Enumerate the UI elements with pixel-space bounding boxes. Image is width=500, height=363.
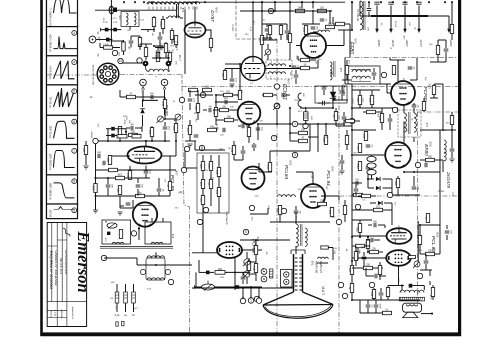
tube PCL84 triode: [242, 167, 265, 190]
capacitor: [151, 95, 153, 100]
wire: [371, 90, 373, 95]
svg-text:33K: 33K: [210, 127, 215, 129]
resistor: [370, 250, 379, 253]
junction: [404, 1, 406, 3]
wire: [154, 45, 166, 47]
wire: [261, 57, 263, 64]
wire: [351, 200, 353, 300]
yoke plug circles: [140, 79, 147, 86]
tuner vertical wire: [110, 0, 112, 47]
wire: [360, 312, 390, 314]
wire: [389, 122, 391, 130]
coil: [330, 62, 332, 74]
junction: [367, 251, 369, 253]
junction: [351, 129, 353, 131]
junction: [155, 264, 157, 266]
svg-text:M.A.T.: M.A.T.: [321, 286, 325, 295]
node: [381, 72, 386, 77]
wire: [192, 287, 294, 289]
junction: [153, 45, 155, 47]
resistor: [321, 246, 329, 249]
junction: [289, 1, 291, 3]
capacitor: [374, 2, 379, 4]
resistor: [254, 264, 257, 273]
svg-text:5K6: 5K6: [215, 190, 217, 195]
wire: [438, 39, 446, 41]
resistor: [426, 214, 429, 223]
resistor rail: [350, 266, 353, 275]
wire: [145, 174, 147, 178]
wire: [363, 111, 366, 113]
wire: [125, 303, 127, 312]
wire: [432, 285, 434, 288]
wire: [352, 182, 362, 184]
junction: [204, 1, 206, 3]
wire: [383, 178, 393, 180]
wire: [310, 67, 318, 69]
wire: [289, 2, 291, 8]
wire: [159, 32, 161, 36]
resistor: [163, 100, 166, 109]
wire: [162, 29, 164, 35]
wire: [318, 102, 322, 104]
CRT neck: [294, 254, 303, 292]
capacitor: [156, 51, 161, 53]
oscillogram box 3: [47, 56, 78, 85]
section divider dashed power boundary: [345, 57, 458, 59]
junction: [143, 1, 145, 3]
junction: [289, 65, 291, 67]
wire: [451, 34, 453, 41]
wire: [261, 45, 263, 57]
potentiometer vert hold: [157, 116, 164, 123]
wire: [367, 300, 369, 304]
wire: [242, 272, 244, 276]
wire: [95, 196, 97, 210]
coil: [318, 30, 329, 32]
junction: [94, 177, 96, 179]
wire: [141, 29, 155, 31]
wire: [153, 27, 155, 33]
resistor: [209, 39, 212, 48]
svg-text:8: 8: [201, 146, 203, 150]
IF transformer T100 box: [121, 12, 139, 27]
svg-text:12V 50: 12V 50: [49, 210, 52, 218]
resistor: [174, 124, 177, 133]
wire: [392, 194, 420, 196]
capacitor: [129, 41, 134, 43]
wire: [295, 78, 297, 84]
oscillogram 6 waveform trace: [54, 151, 75, 168]
svg-text:7: 7: [273, 136, 275, 140]
svg-text:4K7: 4K7: [328, 210, 330, 215]
coil: [168, 16, 180, 18]
wire: [242, 280, 244, 284]
resistor: [296, 9, 305, 12]
wire: [269, 151, 271, 162]
junction: [215, 94, 217, 96]
wire: [238, 125, 241, 127]
wire: [367, 308, 369, 313]
svg-text:1M: 1M: [265, 252, 267, 255]
wire: [419, 245, 421, 249]
revision tick marks: [116, 322, 118, 326]
wire: [234, 159, 243, 161]
wire: [371, 105, 373, 108]
potentiometer focus: [243, 259, 250, 266]
wire: [439, 225, 441, 254]
resistor: [254, 246, 257, 255]
wire: [262, 39, 277, 41]
capacitor: [366, 145, 371, 147]
wire: [286, 24, 288, 30]
wire: [248, 137, 250, 144]
resistor: [201, 196, 204, 205]
wire: [352, 129, 376, 131]
node: [336, 219, 341, 224]
wire: [195, 286, 202, 288]
wire: [373, 267, 383, 269]
wire: [296, 67, 300, 69]
wire: [381, 123, 383, 131]
wire: [242, 154, 244, 160]
wire: [403, 105, 405, 113]
node: [184, 146, 189, 151]
svg-text:1M: 1M: [130, 124, 133, 126]
wire: [423, 111, 425, 113]
wire: [151, 137, 153, 141]
resistor: [432, 86, 435, 95]
wire: [363, 252, 365, 256]
capacitor: [450, 149, 455, 151]
wire: [351, 108, 353, 200]
wire: [355, 261, 357, 267]
wire: [370, 202, 376, 204]
resistor: [422, 102, 425, 111]
capacitor: [356, 181, 358, 186]
tube PCL85 triode: [128, 147, 162, 164]
resistor: [174, 36, 177, 45]
svg-text:FECHA: FECHA: [50, 310, 53, 318]
wire: [129, 166, 131, 171]
svg-text:8T1: 8T1: [181, 8, 185, 13]
wire: [276, 110, 278, 124]
coil T4 primary: [404, 113, 406, 132]
svg-text:8K2: 8K2: [370, 292, 372, 297]
wire: [184, 10, 186, 75]
resistor: [372, 290, 375, 299]
junction: [403, 171, 405, 173]
wire: [418, 6, 420, 17]
resistor: [144, 48, 147, 57]
wire: [274, 9, 276, 12]
capacitor: [136, 185, 141, 187]
yoke plug black b: [166, 61, 172, 67]
wire: [224, 69, 226, 72]
wire: [332, 86, 334, 92]
resistor: [209, 180, 212, 189]
wire: [421, 313, 432, 315]
node 31: [268, 8, 273, 13]
svg-text:10K: 10K: [417, 186, 419, 190]
capacitor: [412, 105, 417, 107]
resistor: [217, 168, 220, 177]
resistor: [128, 171, 131, 180]
junction: [138, 228, 140, 230]
coil yoke b: [147, 278, 165, 280]
node: [274, 84, 279, 89]
wire: [329, 11, 331, 24]
capacitor: [322, 87, 327, 89]
top B+ bus wire: [183, 1, 345, 3]
yoke wire a: [143, 90, 158, 101]
junction: [107, 140, 109, 142]
svg-text:68K: 68K: [194, 106, 196, 111]
wire: [130, 44, 132, 48]
capacitor: [379, 293, 384, 295]
capacitor: [311, 27, 316, 29]
oscillogram 7 index circle: [72, 179, 77, 184]
resistor: [362, 194, 371, 197]
wire: [137, 189, 139, 196]
resistor: [232, 146, 235, 155]
wire: [197, 113, 199, 121]
svg-text:130V 50 c/s: 130V 50 c/s: [49, 126, 52, 139]
wire: [428, 15, 449, 17]
junction: [413, 171, 415, 173]
node: [249, 205, 254, 210]
resistor: [343, 206, 346, 215]
wire: [352, 209, 373, 211]
wire: [380, 288, 382, 292]
wire: [215, 95, 217, 125]
wire: [164, 97, 166, 100]
wire: [373, 68, 375, 72]
junction: [351, 1, 353, 3]
wire: [302, 23, 320, 25]
oscillogram 6 index circle: [72, 148, 77, 153]
svg-text:6V7: 6V7: [287, 79, 291, 85]
junction: [312, 1, 314, 3]
wire: [376, 111, 382, 113]
svg-text:1M: 1M: [110, 298, 113, 300]
fusible resistor: [132, 292, 136, 303]
capacitor: [131, 126, 133, 131]
wire: [246, 125, 250, 127]
svg-text:+125V: +125V: [449, 39, 452, 47]
CRT funnel bell: [263, 292, 333, 305]
wire: [242, 146, 244, 150]
wire: [104, 257, 137, 259]
wire: [388, 285, 404, 287]
wire: [381, 108, 383, 114]
svg-text:ESQUEMA Nº 01020002: ESQUEMA Nº 01020002: [49, 251, 53, 290]
IF transformer T2 dashed box: [266, 60, 292, 79]
capacitor: [194, 135, 199, 137]
junction: [274, 10, 276, 12]
wire: [341, 155, 343, 160]
wire: [96, 177, 151, 179]
wire: [85, 155, 87, 166]
junction: [351, 260, 353, 262]
capacitor: [106, 185, 111, 187]
junction: [261, 1, 263, 3]
junction: [252, 10, 254, 12]
diode sound det: [378, 201, 382, 205]
svg-text:3V2: 3V2: [429, 141, 433, 147]
junction: [125, 131, 127, 133]
wire: [130, 36, 132, 40]
wire: [210, 155, 212, 162]
wire: [111, 40, 123, 42]
wire: [248, 124, 250, 128]
wire: [216, 101, 238, 103]
svg-text:39K: 39K: [241, 122, 245, 124]
wire: [162, 218, 164, 222]
wire: [413, 176, 415, 186]
resistor: [358, 224, 361, 233]
wire: [387, 297, 389, 301]
junction: [289, 107, 291, 109]
potentiometer G2: [243, 271, 250, 278]
resistor: [279, 26, 282, 35]
junction: [119, 140, 121, 142]
wire: [433, 95, 435, 99]
wire: [120, 62, 143, 64]
wire: [355, 192, 357, 196]
yoke wire b: [164, 90, 166, 116]
svg-text:DY87: DY87: [210, 10, 215, 22]
wire: [261, 9, 263, 36]
ground: [83, 166, 88, 169]
CRT gun grid bars: [295, 258, 302, 290]
wire: [152, 57, 170, 59]
wire: [387, 92, 391, 94]
junction: [215, 101, 217, 103]
wire: [433, 84, 435, 86]
coil frame transformer secondary: [151, 242, 163, 244]
junction: [376, 15, 378, 17]
resistor: [304, 26, 307, 35]
svg-text:33K: 33K: [245, 34, 249, 36]
svg-text:39K: 39K: [295, 216, 297, 220]
node: [101, 255, 106, 260]
svg-text:1nF: 1nF: [128, 120, 130, 124]
section divider dashed CAF box top: [236, 38, 277, 40]
wire: [391, 179, 393, 195]
wire: [171, 40, 173, 45]
resistor: [324, 136, 327, 145]
resistor: [299, 131, 308, 134]
capacitor: [374, 305, 379, 307]
wire: [166, 17, 168, 19]
wire: [189, 90, 191, 97]
tube PCF80 sound: [391, 81, 415, 105]
junction: [301, 1, 303, 3]
wire: [378, 224, 385, 226]
svg-text:33K: 33K: [106, 158, 108, 163]
wire: [99, 43, 101, 48]
wire: [262, 37, 272, 39]
wire: [352, 107, 398, 109]
coil yoke a: [147, 256, 165, 258]
wire: [119, 196, 121, 208]
wire: [344, 120, 345, 122]
svg-text:33K: 33K: [333, 250, 335, 254]
ground: [213, 128, 218, 131]
node: [179, 97, 184, 102]
oscillogram box 7: [47, 175, 78, 204]
wire: [341, 94, 343, 100]
wire: [203, 109, 207, 111]
svg-text:0,05: 0,05: [266, 165, 268, 170]
wire: [301, 2, 303, 8]
node 6: [349, 118, 354, 123]
wire: [368, 251, 369, 253]
capacitor: [157, 189, 162, 191]
resistor: [138, 38, 141, 47]
coil: [296, 224, 298, 247]
wire: [267, 208, 269, 214]
wire: [185, 140, 196, 142]
svg-text:5: 5: [245, 230, 247, 234]
wire: [141, 126, 143, 132]
wire: [332, 17, 334, 24]
wire: [255, 255, 257, 264]
wire: [336, 125, 352, 127]
wire: [367, 237, 369, 240]
wire: [100, 47, 103, 49]
coil: [147, 2, 200, 4]
node: [338, 282, 343, 287]
wire: [389, 58, 391, 61]
junction: [123, 1, 125, 3]
capacitor: [444, 49, 449, 51]
wire: [279, 215, 281, 223]
wire: [123, 40, 125, 42]
wire: [275, 10, 295, 12]
wire: [345, 83, 352, 85]
capacitor: [320, 19, 325, 21]
svg-text:+190V: +190V: [405, 39, 408, 47]
wire: [147, 30, 149, 32]
wire: [305, 120, 307, 124]
striped resistor near neck: [270, 269, 273, 278]
diode video: [332, 96, 337, 101]
wire: [305, 107, 307, 112]
detector choke striped: [304, 112, 308, 121]
ratio detector coil b: [367, 163, 376, 168]
wire: [296, 45, 301, 47]
node: [203, 207, 208, 212]
junction: [367, 178, 369, 180]
wire: [255, 273, 257, 281]
svg-text:2T7: 2T7: [339, 68, 343, 73]
wire: [105, 221, 107, 223]
wire: [262, 23, 287, 25]
wire: [175, 141, 177, 156]
wire: [359, 105, 361, 108]
arrow feed +245V: [375, 16, 379, 33]
junction: [451, 129, 453, 131]
wire: [389, 114, 391, 118]
resistor: [136, 194, 145, 197]
wire: [439, 196, 441, 225]
antenna input terminal: [89, 36, 96, 43]
svg-text:12K: 12K: [372, 249, 377, 251]
wire: [352, 235, 386, 237]
wire: [113, 47, 120, 49]
